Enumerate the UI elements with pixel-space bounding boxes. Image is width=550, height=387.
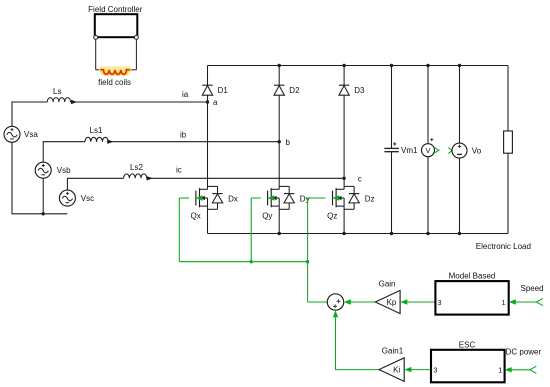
- diode D2: [274, 85, 300, 95]
- wire gate drive Qz: [308, 197, 326, 199]
- wire bus to diode D3: [343, 66, 345, 86]
- svg-text:Dz: Dz: [365, 195, 375, 204]
- svg-text:3: 3: [433, 366, 437, 375]
- wire phase a to node a: [71, 101, 208, 103]
- block Model Based: [435, 281, 508, 315]
- wire gate drive Qy: [251, 197, 261, 199]
- wire phase b to node b: [107, 141, 279, 143]
- inductor field coils (highlighted): [100, 66, 130, 75]
- junction bottom bus x=279.2: [278, 232, 281, 235]
- capacitor Vm1: [384, 66, 418, 234]
- port voltmeter signal output: [434, 147, 439, 153]
- arrow current ia: [71, 100, 77, 104]
- summing junction: [327, 294, 343, 310]
- wire Qz gate drop to summing node: [307, 198, 309, 302]
- junction bottom bus x=428: [426, 232, 429, 235]
- svg-text:ESC: ESC: [459, 340, 476, 349]
- block ESC: [431, 350, 505, 383]
- svg-text:Ls1: Ls1: [90, 126, 103, 135]
- junction top bus x=459.5: [458, 64, 461, 67]
- transistor Qz (MOSFET with antiparallel diode Dz): [327, 186, 374, 220]
- wire bus to diode D2: [278, 66, 280, 86]
- AC voltage source Vsc: [59, 190, 94, 206]
- svg-text:D2: D2: [289, 86, 300, 95]
- wire Qx source to bottom bus: [207, 206, 209, 233]
- wire gate bus: [179, 261, 307, 263]
- svg-text:Ki: Ki: [393, 365, 400, 374]
- wire Vsa bottom to neutral bus: [12, 142, 67, 214]
- svg-text:Field Controller: Field Controller: [88, 5, 143, 14]
- svg-text:Dx: Dx: [228, 195, 238, 204]
- controlled voltage source Vo: [452, 66, 482, 234]
- arrow into gate Qy: [267, 195, 274, 200]
- resistor electronic load: [504, 66, 513, 234]
- wire Vsb bottom to neutral: [42, 178, 44, 214]
- svg-text:Electronic Load: Electronic Load: [476, 242, 531, 251]
- wire bottom DC bus: [208, 233, 509, 235]
- junction gate bus Qy: [250, 260, 253, 263]
- wire top DC bus: [208, 65, 509, 67]
- svg-text:Ls: Ls: [53, 87, 61, 96]
- svg-text:Model Based: Model Based: [449, 272, 496, 281]
- arrow into ESC: [505, 367, 512, 372]
- node c: [342, 177, 345, 180]
- svg-text:V: V: [425, 146, 430, 155]
- arrow current ib: [107, 140, 113, 144]
- inductor Ls1: [85, 137, 108, 141]
- svg-text:DC power: DC power: [506, 348, 542, 357]
- junction top bus x=344.1: [342, 64, 345, 67]
- svg-text:D3: D3: [354, 86, 365, 95]
- wire gate drive Qx: [179, 197, 189, 199]
- diode D1: [202, 85, 228, 95]
- svg-text:Qx: Qx: [191, 211, 201, 220]
- svg-text:c: c: [358, 175, 362, 184]
- node b: [278, 140, 281, 143]
- voltmeter V: [422, 66, 435, 234]
- AC voltage source Vsb: [35, 162, 71, 178]
- svg-text:Vsc: Vsc: [81, 194, 94, 203]
- junction bottom bus x=459.5: [458, 232, 461, 235]
- junction neutral node: [42, 212, 45, 215]
- wire sum output: [308, 301, 328, 303]
- wire Qx gate drop: [178, 198, 180, 262]
- terminal port left of Field Controller: [94, 35, 98, 39]
- svg-text:Vm1: Vm1: [401, 146, 418, 155]
- svg-text:Ls2: Ls2: [130, 163, 143, 172]
- wire Model Based to Kp: [407, 301, 436, 303]
- wire Qy gate drop: [250, 198, 252, 262]
- wire bus to diode D1: [207, 66, 209, 86]
- terminal port right of Field Controller: [134, 35, 138, 39]
- svg-text:Vo: Vo: [472, 146, 482, 155]
- AC voltage source Vsa: [4, 126, 38, 142]
- transistor Qy (MOSFET with antiparallel diode Dy): [262, 186, 309, 220]
- port Speed: [536, 298, 543, 305]
- svg-text:Vsb: Vsb: [57, 166, 71, 175]
- junction gate bus Qz: [306, 260, 309, 263]
- wire D1 to Qx drain: [207, 95, 209, 189]
- inductor Ls: [47, 98, 70, 102]
- block Field Controller box: [95, 14, 138, 37]
- junction top bus x=391.5: [390, 64, 393, 67]
- wire field controller right lead: [135, 37, 137, 70]
- svg-text:field coils: field coils: [98, 78, 131, 87]
- port DC power: [530, 366, 537, 373]
- wire Vsb top to phase b: [43, 142, 85, 163]
- arrow into Model Based: [509, 299, 516, 304]
- svg-text:ia: ia: [182, 90, 189, 99]
- svg-text:ic: ic: [176, 165, 182, 174]
- svg-text:Gain: Gain: [379, 279, 396, 288]
- wire Vsc top to phase c: [67, 178, 123, 190]
- svg-text:3: 3: [437, 298, 441, 307]
- junction top bus x=428: [426, 64, 429, 67]
- inductor Ls2: [124, 174, 147, 178]
- wire Speed input: [515, 301, 536, 303]
- svg-text:b: b: [286, 138, 291, 147]
- arrow into sum from Kp: [344, 299, 351, 304]
- svg-text:Qz: Qz: [327, 211, 337, 220]
- wire field controller left lead: [95, 37, 97, 70]
- junction bottom bus x=344.1: [342, 232, 345, 235]
- junction top bus x=279.2: [278, 64, 281, 67]
- node a: [206, 100, 209, 103]
- wire Kp output to sum: [350, 301, 375, 303]
- svg-text:Speed: Speed: [521, 284, 544, 293]
- wire D2 to Qy drain: [278, 95, 280, 189]
- port Vo control input: [448, 148, 452, 154]
- svg-text:a: a: [213, 98, 218, 107]
- svg-text:1: 1: [498, 366, 502, 375]
- arrow current ic: [147, 176, 153, 180]
- svg-text:Vsa: Vsa: [24, 130, 38, 139]
- svg-text:Qy: Qy: [262, 211, 272, 220]
- gain block Kp: [375, 290, 400, 313]
- svg-text:ib: ib: [180, 130, 187, 139]
- wire ESC to Ki: [411, 369, 431, 371]
- arrow into Ki: [405, 367, 412, 372]
- svg-text:Gain1: Gain1: [382, 346, 404, 355]
- transistor Qx (MOSFET with antiparallel diode Dx): [191, 186, 238, 220]
- wire D3 to Qz drain: [343, 95, 345, 189]
- wire Vsa top to phase a: [12, 102, 47, 126]
- wire Qy source to bottom bus: [278, 206, 280, 233]
- wire Qz source to bottom bus: [343, 206, 345, 233]
- junction bottom bus x=391.5: [390, 232, 393, 235]
- svg-text:D1: D1: [218, 86, 229, 95]
- wire field coil right stub: [129, 69, 136, 71]
- arrow into gate Qz: [332, 195, 339, 200]
- arrow into gate Qx: [196, 195, 203, 200]
- arrow into Kp: [400, 299, 407, 304]
- gain block Ki: [379, 358, 404, 382]
- wire Ki output to sum: [336, 317, 380, 370]
- wire phase c to node c: [146, 177, 344, 179]
- arrow into sum from Ki: [333, 310, 338, 317]
- wire DC power input: [511, 369, 530, 371]
- wire field coil left stub: [96, 69, 101, 71]
- svg-text:1: 1: [502, 298, 506, 307]
- diode D3: [339, 85, 365, 95]
- svg-text:Kp: Kp: [387, 298, 397, 307]
